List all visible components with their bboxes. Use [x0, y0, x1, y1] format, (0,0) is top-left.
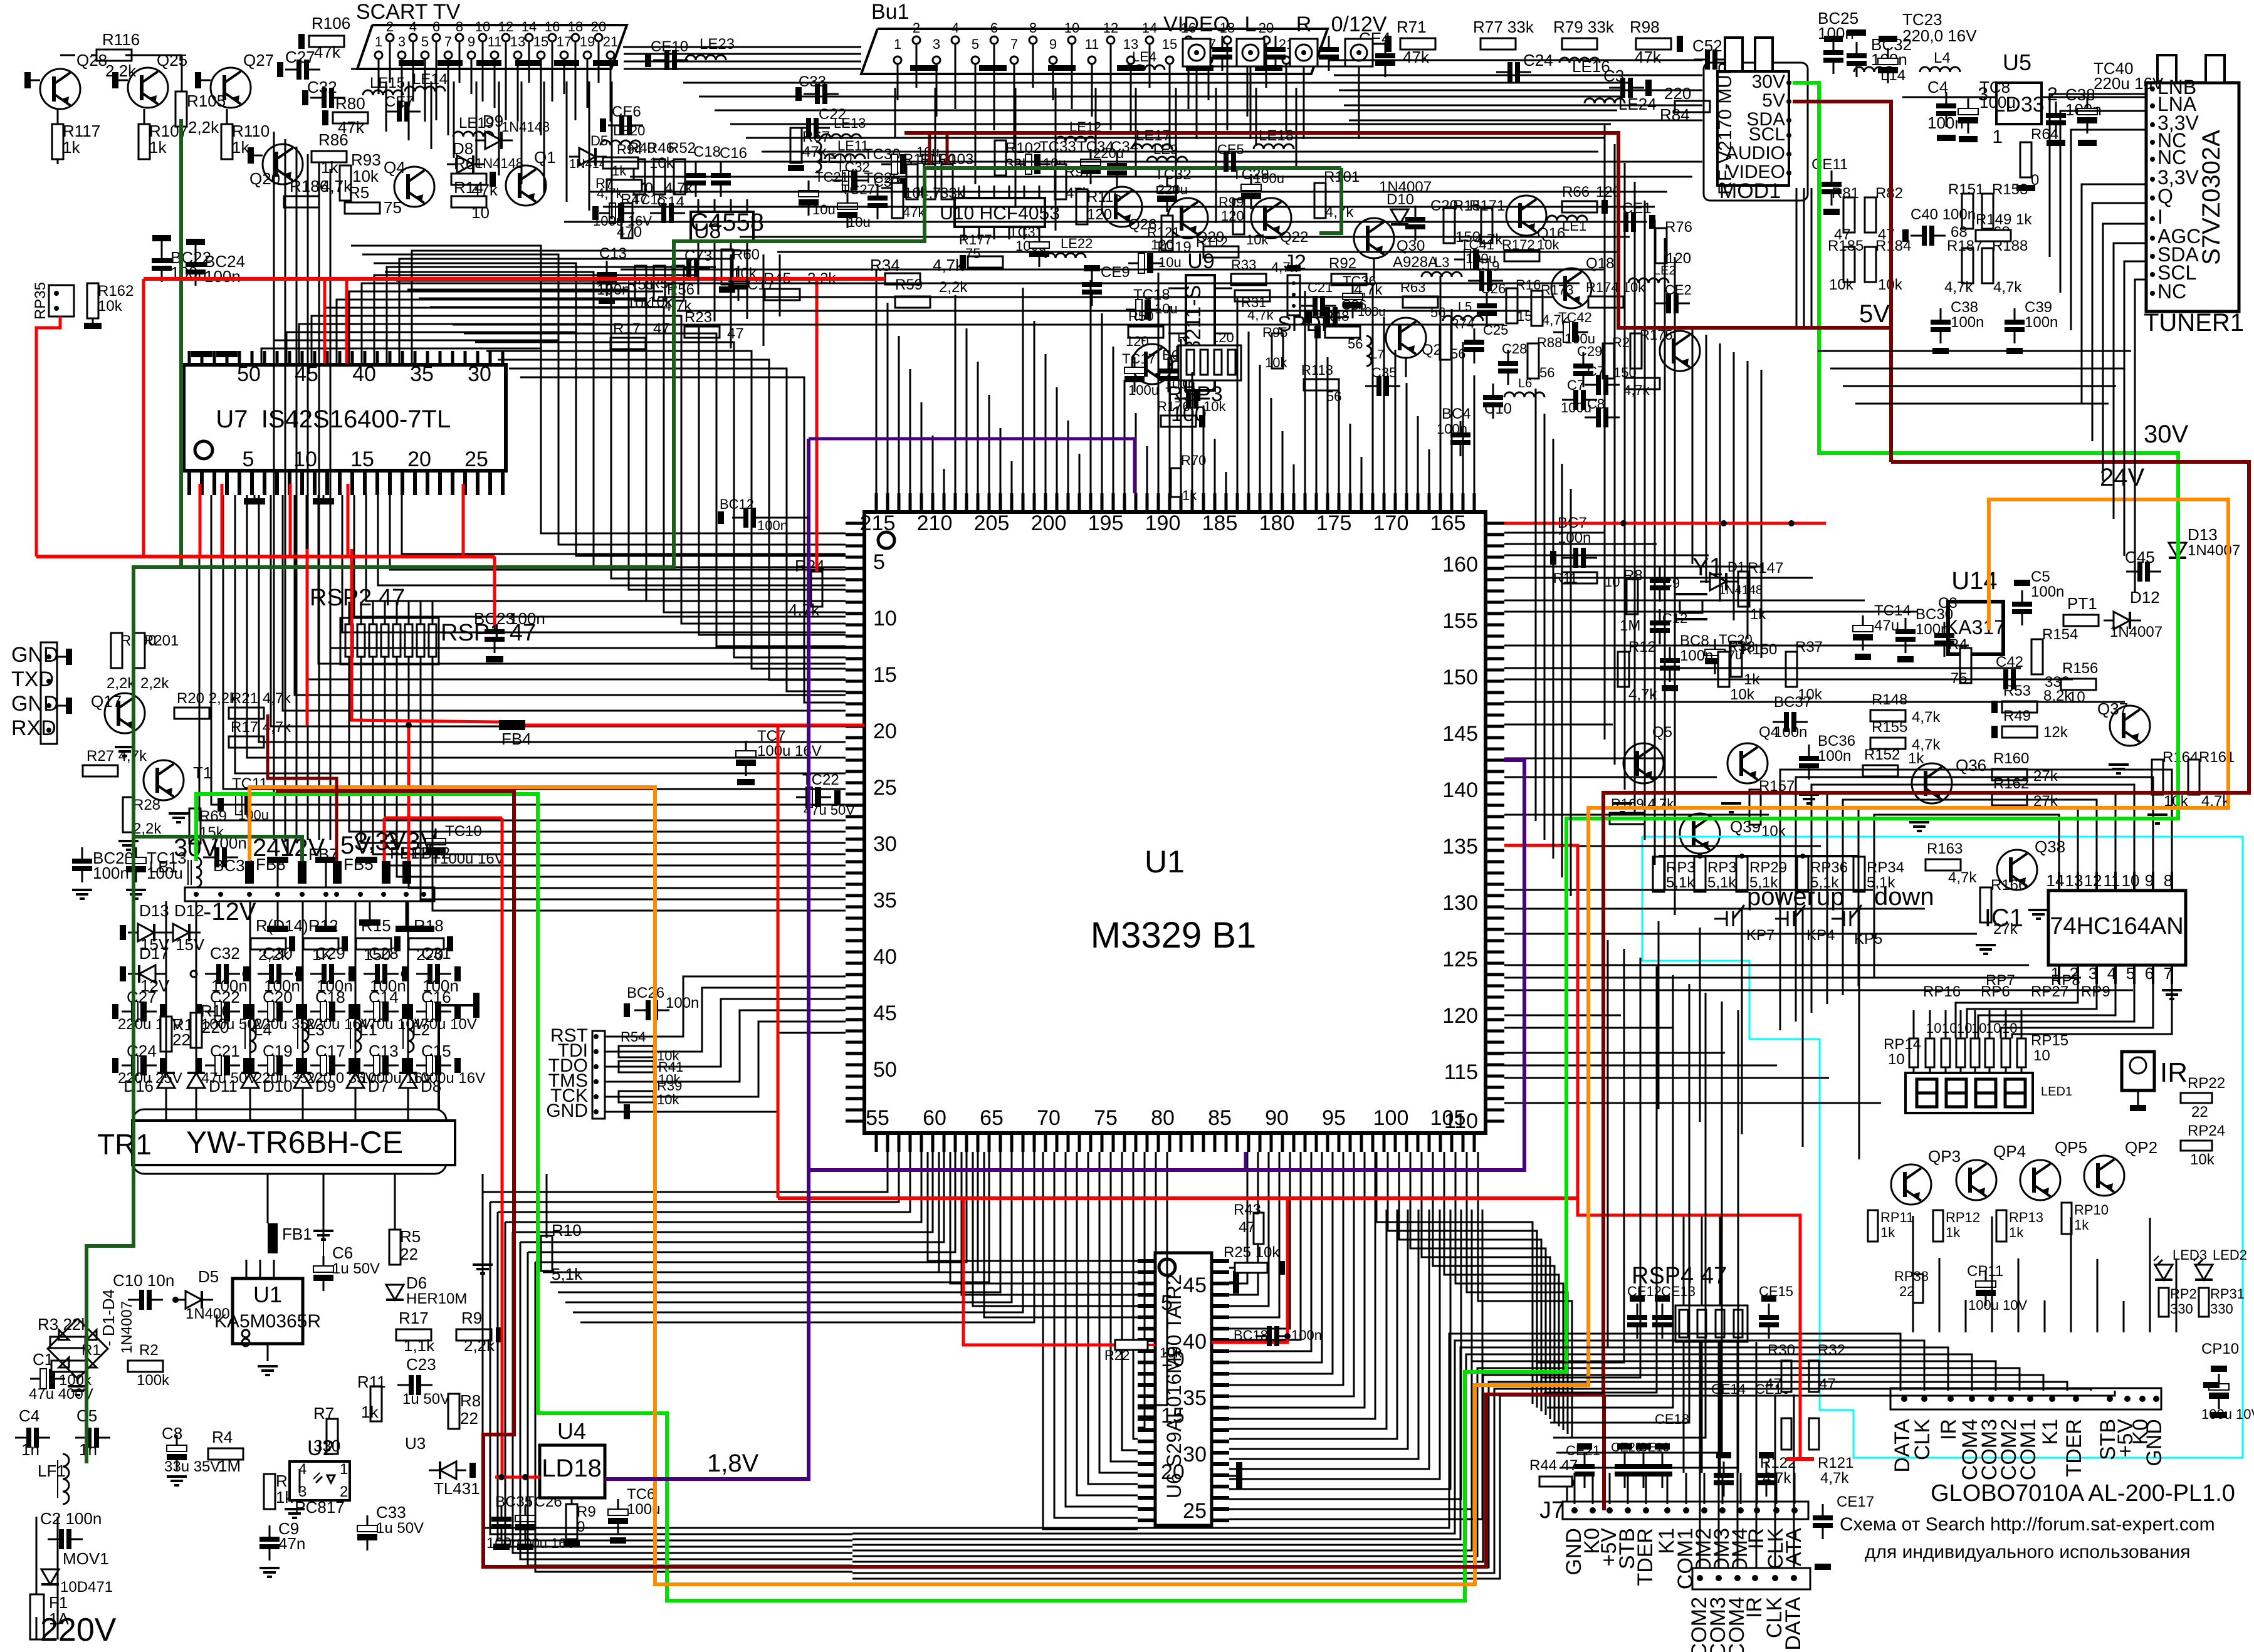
terminal bus gnd5 [315, 926, 337, 932]
svg-text:100n: 100n [1951, 314, 1984, 331]
svg-text:330: 330 [2210, 1301, 2233, 1317]
resistor R39 [619, 1091, 654, 1102]
resistor R161 [2188, 760, 2199, 795]
svg-text:S7VZ0302A: S7VZ0302A [2198, 130, 2225, 265]
cyan border front panel [1642, 837, 2243, 1458]
svg-text:100u: 100u [1979, 93, 2016, 112]
resistor R110 [221, 124, 233, 159]
svg-text:1u 50V: 1u 50V [332, 1260, 380, 1277]
inductor LE1 [1547, 216, 1587, 221]
resistor RP10 [2062, 1203, 2072, 1234]
svg-text:18: 18 [568, 19, 583, 34]
resistor R122 [1781, 1418, 1791, 1450]
svg-text:55: 55 [866, 1106, 889, 1130]
svg-text:TC6: TC6 [627, 1486, 655, 1503]
svg-text:5V: 5V [1859, 300, 1890, 328]
svg-text:175: 175 [1316, 511, 1352, 535]
wire red drop to R24 [815, 279, 819, 572]
transistor Q17b [1660, 331, 1700, 371]
capacitor TC10b [426, 839, 446, 845]
svg-text:35: 35 [1183, 1386, 1207, 1410]
svg-text:L3: L3 [1434, 254, 1449, 270]
bus U7 bottom to U1 left [199, 495, 846, 820]
resistor R49 [2002, 726, 2037, 738]
svg-text:R8: R8 [460, 1391, 481, 1410]
ferrite FB12 [402, 861, 411, 884]
svg-text:47: 47 [1819, 1376, 1836, 1393]
svg-text:10D471: 10D471 [60, 1579, 113, 1596]
svg-text:TDER: TDER [1633, 1528, 1657, 1586]
wire dark green bottom [134, 837, 302, 861]
transistor Q23 [1386, 318, 1426, 358]
ic U1 pin1 circle [878, 532, 894, 548]
resistor R162b [1992, 794, 2027, 805]
resistor R12b [1618, 652, 1629, 687]
resistor RP27b [2159, 1288, 2169, 1317]
svg-text:10: 10 [873, 607, 897, 630]
svg-text:VIDEO: VIDEO [1727, 162, 1785, 182]
svg-text:47n: 47n [278, 1534, 305, 1553]
resistor R101 [1314, 183, 1326, 218]
diode D8 [399, 1073, 417, 1088]
svg-text:2,2k: 2,2k [133, 820, 162, 837]
svg-text:D12: D12 [174, 901, 204, 920]
svg-text:RP6: RP6 [1981, 983, 2010, 1000]
svg-text:220u 16V: 220u 16V [2094, 74, 2164, 93]
svg-text:R53: R53 [2003, 682, 2031, 699]
svg-text:1k: 1k [232, 138, 249, 157]
bus switch drops [1658, 921, 1660, 1109]
svg-text:100u: 100u [1254, 170, 1284, 186]
svg-text:9: 9 [2145, 871, 2154, 890]
svg-text:10k: 10k [1246, 232, 1269, 248]
transistor Q37 [2110, 706, 2150, 746]
diode D6 HER10M [386, 1285, 404, 1300]
svg-text:47k: 47k [314, 43, 341, 61]
wire U5 in [1902, 97, 1996, 98]
transistor QP5 [2020, 1160, 2060, 1200]
bus right verticals [1604, 125, 1606, 740]
diode D9 [294, 1073, 312, 1088]
ic U6 body [1155, 1253, 1212, 1525]
wire red LD18 node [495, 1476, 501, 1479]
svg-text:IR: IR [1937, 1419, 1961, 1440]
resistor R102 [995, 140, 1006, 175]
wire purple vertical [605, 439, 809, 1479]
resistor R51 [654, 266, 665, 301]
svg-text:RP29: RP29 [1749, 859, 1787, 876]
svg-text:4,7k: 4,7k [1912, 709, 1941, 726]
wire red 3,3V rail FB12 [407, 725, 411, 861]
svg-text:D16: D16 [123, 1077, 154, 1095]
bus tuner left wiring [2050, 94, 2146, 257]
ic U7 body [184, 365, 506, 471]
resistor R121 [1809, 1418, 1819, 1450]
connector J7 box [1563, 1502, 1808, 1519]
svg-text:LE22: LE22 [1061, 236, 1093, 251]
resistor R82 [1865, 197, 1876, 233]
svg-text:C33: C33 [376, 1503, 406, 1522]
resistor R2 100k [128, 1361, 163, 1372]
jack L stem [1250, 66, 1252, 139]
ic U9 body [1186, 275, 1215, 390]
inductor LE13 [821, 134, 861, 139]
capacitor BC29 [72, 859, 92, 864]
transistor QP2 [2084, 1156, 2124, 1196]
svg-text:K1: K1 [2038, 1419, 2062, 1445]
svg-text:100u: 100u [1128, 382, 1159, 398]
svg-text:6: 6 [432, 19, 440, 34]
svg-text:1N4148: 1N4148 [501, 119, 550, 135]
resistor R59 [895, 296, 930, 308]
resistor R200 [111, 633, 122, 668]
svg-text:KA5M0365R: KA5M0365R [214, 1311, 321, 1332]
svg-text:R22: R22 [1104, 1347, 1130, 1363]
resistor R7a [607, 180, 642, 191]
svg-text:2: 2 [386, 19, 394, 34]
svg-text:24V: 24V [2100, 464, 2144, 491]
svg-text:20: 20 [1161, 1460, 1185, 1484]
svg-text:C2 100n: C2 100n [40, 1509, 102, 1528]
wire red drop BC18 [1212, 1198, 1287, 1342]
resistor R24 [811, 572, 822, 607]
svg-text:TUNER1: TUNER1 [2144, 309, 2244, 337]
svg-text:C16: C16 [720, 145, 747, 162]
transistor Q5 [1623, 743, 1664, 783]
svg-text:10k: 10k [1829, 276, 1854, 293]
svg-text:90: 90 [1265, 1106, 1289, 1130]
svg-text:TC15: TC15 [632, 192, 666, 207]
svg-text:1k: 1k [1750, 606, 1766, 623]
svg-text:C29: C29 [1577, 343, 1602, 359]
inductor LE2 [1628, 278, 1669, 283]
ic U8 pins [698, 199, 700, 212]
wire red down to LD18 [502, 818, 540, 1477]
svg-text:C21: C21 [1308, 280, 1333, 295]
svg-text:Q27: Q27 [243, 51, 274, 70]
connector Bu1 outline [861, 29, 1328, 74]
svg-text:4,7k: 4,7k [321, 177, 352, 196]
diode D10b [1391, 209, 1408, 224]
svg-text:10: 10 [2033, 1047, 2050, 1064]
svg-text:R147: R147 [1748, 560, 1783, 577]
resistor R86 [312, 151, 347, 162]
resistor RP22 [2181, 1093, 2212, 1103]
svg-text:M3329 B1: M3329 B1 [1091, 915, 1256, 956]
svg-text:60: 60 [923, 1106, 946, 1130]
ic KA pins [246, 1260, 248, 1278]
svg-text:R94: R94 [617, 142, 642, 157]
svg-text:4,7k: 4,7k [1628, 686, 1657, 703]
resistor R29 [1603, 343, 1614, 379]
inductor L1 [355, 1018, 361, 1052]
resistor R37 [1786, 652, 1797, 687]
svg-text:1N4007: 1N4007 [2188, 542, 2240, 559]
svg-text:20: 20 [873, 719, 897, 743]
svg-text:C34: C34 [1111, 139, 1138, 155]
svg-text:QP3: QP3 [1928, 1147, 1961, 1166]
svg-text:L6: L6 [1518, 377, 1532, 390]
svg-text:5: 5 [421, 34, 429, 50]
svg-text:RSP2 47: RSP2 47 [310, 585, 405, 611]
power bus dots [194, 892, 199, 897]
resistor R38 [1718, 652, 1729, 687]
svg-text:R37: R37 [1795, 639, 1823, 656]
inductor L3 [303, 1018, 308, 1052]
transistor Q39 [1680, 813, 1720, 854]
inductor LE9 [1147, 157, 1187, 162]
svg-text:4,7k: 4,7k [1247, 307, 1274, 323]
tuner antenna stub 1 [2157, 55, 2176, 83]
wire red riser x229 [142, 279, 145, 557]
svg-text:100n: 100n [2031, 583, 2064, 600]
svg-text:21: 21 [603, 34, 618, 50]
resistor R118 [1304, 379, 1339, 390]
svg-text:25: 25 [1183, 1499, 1207, 1523]
resistor R17b [611, 338, 646, 349]
transistor QP3 [1891, 1164, 1931, 1205]
svg-text:LE1: LE1 [1562, 218, 1586, 234]
connector RP35a [49, 285, 74, 316]
connector SCART TV pins [375, 51, 382, 59]
svg-text:R155: R155 [1872, 719, 1907, 736]
bus U7 top nest [261, 348, 540, 365]
svg-text:40: 40 [352, 362, 376, 386]
svg-text:C39: C39 [2025, 299, 2052, 316]
resistor RP11 [1868, 1210, 1878, 1242]
svg-text:L5: L5 [1458, 300, 1472, 314]
modulator antenna stubs [1725, 38, 1743, 71]
svg-text:D11: D11 [209, 1077, 238, 1095]
resistor R14 [451, 196, 486, 207]
svg-text:C4: C4 [1927, 78, 1948, 97]
svg-text:L1: L1 [359, 1020, 377, 1039]
ferrite FB8 [245, 861, 254, 884]
svg-text:47k: 47k [1635, 48, 1662, 66]
svg-text:J7: J7 [1539, 1497, 1565, 1524]
transistor Q26 [1102, 187, 1142, 227]
diode D5 1N4007 [186, 1291, 202, 1309]
svg-text:10: 10 [1064, 20, 1079, 36]
resistor R185 [1843, 247, 1855, 282]
terminal bus gnd3 [356, 857, 377, 863]
svg-text:10k: 10k [649, 155, 674, 172]
svg-text:D10: D10 [263, 1077, 293, 1095]
svg-text:up: up [1816, 883, 1845, 911]
connector Bu1 pins [894, 56, 901, 64]
svg-text:2: 2 [913, 20, 920, 36]
svg-text:C4: C4 [19, 1406, 39, 1425]
svg-text:Q4: Q4 [1759, 724, 1779, 741]
svg-text:220,0 16V: 220,0 16V [1902, 26, 1977, 45]
power bus box [185, 887, 434, 901]
wire dark green to Q30 [1319, 168, 1341, 233]
inductor LE10 [816, 142, 821, 172]
ferrite FB1 [268, 1223, 278, 1253]
resistor R184 [1865, 247, 1876, 282]
network RSP1 resistors [345, 624, 353, 657]
svg-text:R173: R173 [1541, 282, 1574, 298]
svg-text:30: 30 [873, 832, 897, 856]
svg-text:5: 5 [873, 550, 885, 574]
svg-text:35: 35 [410, 362, 434, 386]
svg-text:GLOBO7010A AL-200-PL1.0: GLOBO7010A AL-200-PL1.0 [1931, 1480, 2235, 1507]
svg-text:1: 1 [1992, 127, 2003, 147]
svg-text:TDER: TDER [2062, 1419, 2086, 1477]
resistor R177 [968, 256, 1003, 268]
svg-text:R163: R163 [1927, 840, 1963, 857]
svg-text:TC17: TC17 [1122, 351, 1156, 367]
svg-text:Q4: Q4 [384, 158, 406, 177]
svg-text:R148: R148 [1872, 691, 1907, 708]
wire top rail [125, 55, 182, 56]
svg-text:12: 12 [498, 19, 513, 34]
svg-text:10: 10 [1888, 1051, 1905, 1068]
svg-text:2,2k: 2,2k [105, 61, 137, 80]
svg-text:120: 120 [1126, 333, 1149, 349]
terminal front gnd [2203, 1382, 2220, 1388]
U6 bottom-right ground bar [1236, 1462, 1242, 1490]
svg-text:45: 45 [1183, 1273, 1207, 1297]
svg-text:R44 47: R44 47 [1529, 1457, 1578, 1474]
bus U1 bottom to U6 left [1043, 1152, 1138, 1529]
switches KP7 KP4 KP5 [1714, 918, 1727, 920]
ic IC1 gnd [2162, 989, 2182, 991]
resistor R94 [603, 157, 638, 169]
svg-text:8: 8 [456, 19, 463, 34]
svg-text:Q: Q [2157, 185, 2173, 207]
resistor R50 [1128, 327, 1163, 338]
svg-text:R27 4,7k: R27 4,7k [86, 748, 147, 765]
terminal J7 gnd [1559, 1480, 1575, 1486]
ground bar U7 top b [216, 351, 238, 357]
svg-text:R106: R106 [312, 14, 350, 33]
ground T1 [169, 812, 189, 815]
diode D1b [1710, 573, 1726, 590]
resistor R160 [1992, 769, 2027, 780]
svg-text:R32: R32 [1818, 1342, 1845, 1359]
svg-text:45: 45 [873, 1001, 897, 1025]
svg-text:PT1: PT1 [2067, 594, 2097, 613]
svg-text:10k: 10k [2190, 1151, 2215, 1168]
resistor R175 [1630, 333, 1642, 369]
svg-text:Q25: Q25 [157, 51, 187, 70]
svg-text:100n: 100n [1305, 308, 1333, 322]
svg-text:U1: U1 [1145, 844, 1185, 879]
diode LED3 [2155, 1265, 2173, 1280]
svg-text:R121: R121 [1818, 1455, 1853, 1472]
svg-text:YW-TR6BH-CE: YW-TR6BH-CE [186, 1125, 403, 1160]
regulator U5 body [1996, 83, 2042, 124]
svg-text:LE15: LE15 [370, 75, 405, 91]
svg-text:1M: 1M [1620, 617, 1640, 634]
regulator U4 body [540, 1445, 605, 1498]
resistor R169 [1610, 813, 1645, 824]
resistor R52 [674, 159, 685, 194]
resistor R107 [139, 124, 150, 159]
ground Q36 [1909, 821, 1929, 823]
svg-text:R11: R11 [357, 1372, 386, 1391]
svg-text:11: 11 [2104, 871, 2120, 890]
svg-text:R30: R30 [1768, 1342, 1795, 1359]
connector JTAG [592, 1031, 605, 1119]
bus MOD1 pin drops [1796, 188, 1798, 326]
svg-text:TC26: TC26 [525, 1493, 562, 1510]
switch rail [1659, 855, 1859, 857]
diode D9 1N4148 [485, 132, 501, 149]
resistor R60 [721, 249, 733, 285]
transistor Q38 [1997, 850, 2037, 890]
svg-text:MOD1: MOD1 [1719, 179, 1781, 203]
svg-text:RP38: RP38 [1894, 1268, 1929, 1284]
svg-text:U1: U1 [253, 1282, 282, 1307]
transistor T1 [144, 760, 184, 800]
svg-text:4: 4 [409, 19, 417, 34]
resistor R155 [1870, 738, 1905, 749]
ic U7 pin1 circle [195, 441, 212, 459]
resistor R17 11k [396, 1329, 431, 1341]
svg-text:R52: R52 [668, 140, 696, 157]
wire red stubs to U7 bottom [199, 484, 202, 557]
svg-text:LD18: LD18 [542, 1455, 602, 1482]
wire red FB4 down [777, 725, 780, 1198]
resistor R4 1M [208, 1448, 243, 1460]
bus bottom horizontals [852, 1334, 1900, 1528]
transistor Q1 [506, 165, 546, 206]
ground TR1 sec [473, 1263, 493, 1266]
svg-text:30: 30 [468, 362, 491, 386]
svg-text:LE9: LE9 [1153, 142, 1178, 157]
terminal bus gnd7 [396, 926, 417, 932]
svg-text:2,2k: 2,2k [107, 675, 135, 692]
svg-text:100k: 100k [137, 1372, 170, 1389]
fuse F1 [30, 1594, 44, 1639]
svg-text:L3: L3 [307, 1020, 325, 1039]
bus jtag to U1 [605, 976, 846, 1037]
resistor R92 [1331, 274, 1366, 285]
transistor Q36 [1912, 763, 1952, 803]
resistor RD14 [251, 938, 286, 949]
resistor R174 [1588, 296, 1623, 308]
svg-text:11: 11 [1085, 36, 1099, 52]
svg-text:R201: R201 [143, 632, 179, 649]
svg-text:215: 215 [860, 511, 896, 535]
resistor RP29 5,1k [1736, 857, 1748, 892]
bus front connector drops [1912, 1216, 1914, 1332]
resistor R16b [191, 1013, 202, 1048]
ir receiver gnd [2130, 1105, 2146, 1111]
svg-text:100n: 100n [1437, 421, 1467, 437]
transistor Q18 [1551, 268, 1591, 308]
transformer TR1 outer [133, 1109, 446, 1174]
svg-text:25: 25 [464, 447, 488, 471]
svg-text:74HC164AN: 74HC164AN [2050, 913, 2183, 939]
resistor R99 [1233, 199, 1244, 234]
resistor R15a [1444, 208, 1455, 243]
svg-text:RP35: RP35 [32, 282, 49, 320]
network RP14-RP15 resistors [1909, 1038, 1918, 1067]
svg-text:R5: R5 [349, 183, 369, 202]
resistor R152 [1863, 765, 1898, 776]
ground Q5 [1612, 802, 1632, 805]
svg-text:FB1: FB1 [282, 1225, 312, 1243]
svg-text:100n: 100n [93, 864, 129, 882]
svg-text:5,1k: 5,1k [552, 1265, 583, 1283]
svg-text:10k: 10k [1265, 355, 1287, 370]
svg-text:100n: 100n [1680, 647, 1713, 664]
svg-text:85: 85 [1208, 1106, 1232, 1130]
resistor R17c [229, 736, 264, 748]
